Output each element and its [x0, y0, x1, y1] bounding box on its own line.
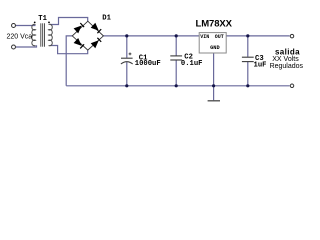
svg-text:1000uF: 1000uF [135, 60, 161, 68]
svg-text:0.1uF: 0.1uF [181, 60, 203, 68]
svg-text:salida: salida [275, 47, 300, 56]
svg-text:D1: D1 [102, 15, 111, 23]
svg-text:LM78XX: LM78XX [196, 19, 233, 30]
svg-text:VIN: VIN [200, 34, 209, 40]
svg-text:Regulados: Regulados [270, 63, 304, 70]
svg-text:220 Vca: 220 Vca [7, 34, 33, 41]
svg-text:GND: GND [210, 45, 220, 51]
svg-text:OUT: OUT [215, 34, 224, 40]
svg-text:1uF: 1uF [254, 61, 267, 69]
svg-text:T1: T1 [38, 15, 47, 23]
